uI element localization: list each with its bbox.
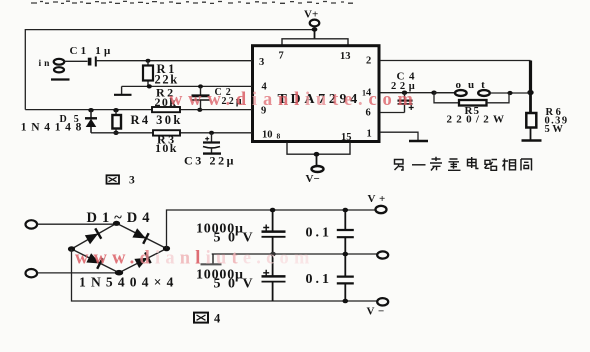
- svg-text:50V: 50V: [214, 277, 261, 292]
- wire pin 6 to C4: [380, 112, 405, 114]
- cut-off text row at top: [31, 1, 353, 3]
- ground (pin 1): [409, 140, 428, 142]
- svg-text:220/2W: 220/2W: [447, 114, 509, 126]
- node C4 top junction: [402, 91, 407, 95]
- svg-text:4: 4: [214, 312, 221, 326]
- resistor R1 22k: [143, 61, 179, 87]
- svg-text:R4 30k: R4 30k: [131, 113, 183, 127]
- capacitor C3 22u: [184, 131, 236, 168]
- svg-text:in: in: [39, 59, 53, 69]
- resistor R4 30k: [112, 108, 182, 135]
- capacitor C1 1u: [70, 45, 114, 67]
- svg-text:0.1: 0.1: [306, 226, 333, 241]
- svg-text:50V: 50V: [214, 231, 261, 246]
- svg-text:V−: V−: [367, 306, 388, 318]
- svg-text:10: 10: [262, 130, 273, 141]
- V+ terminal (bottom circuit): [368, 193, 389, 213]
- wire V- rail: [72, 249, 377, 301]
- svg-text:C1 1μ: C1 1μ: [70, 45, 114, 57]
- svg-text:3: 3: [259, 57, 264, 68]
- svg-text:15: 15: [341, 132, 352, 143]
- resistor R2 20k: [152, 86, 180, 113]
- capacitor 0.1 (top): [306, 208, 354, 257]
- svg-text:22k: 22k: [155, 73, 179, 87]
- svg-text:D1~D4: D1~D4: [87, 210, 155, 226]
- capacitor 10000u/50V (bottom): [196, 252, 286, 301]
- resistor R5 220/2W: [434, 93, 509, 126]
- diode D3 (bottom-left): [86, 252, 103, 268]
- svg-text:1N4148: 1N4148: [21, 122, 86, 134]
- svg-text:10k: 10k: [155, 141, 178, 155]
- op-amp U1 TDA7294 IC box: [253, 46, 380, 142]
- wire pin 14 output line: [380, 92, 455, 94]
- svg-text:8: 8: [277, 132, 281, 141]
- V- terminal (bottom circuit): [367, 298, 389, 317]
- node R1 bottom junction: [147, 84, 152, 88]
- wire V+ rail: [167, 210, 377, 249]
- capacitor 10000u/50V (top): [196, 208, 286, 254]
- wire pin 4 line: [122, 85, 252, 87]
- wire input2 to bridge bottom: [37, 272, 119, 274]
- svg-text:V−: V−: [306, 173, 320, 185]
- resistor R3 10k: [153, 130, 180, 155]
- svg-text:www.dianliute.com: www.dianliute.com: [169, 90, 419, 110]
- 图3 figure label: [107, 175, 136, 187]
- wire pin 1 to ground: [380, 132, 418, 140]
- svg-text:2: 2: [366, 56, 371, 67]
- wire: outer loop left+top border: [25, 30, 314, 110]
- wire C1 to pin 3: [96, 60, 252, 62]
- node 0V terminal: [377, 251, 388, 258]
- svg-text:5W: 5W: [545, 124, 566, 135]
- ground (mid rail): [212, 254, 214, 264]
- diode D1 (top-left): [84, 228, 101, 245]
- wire pin 2 feedback line: [380, 60, 531, 62]
- capacitor C2 22u: [192, 84, 244, 112]
- wire in to C1: [65, 60, 88, 62]
- capacitor C4 22u: [391, 71, 419, 113]
- ground (pin 4 line): [121, 86, 123, 94]
- svg-text:V+: V+: [368, 193, 389, 205]
- svg-text:C3 22μ: C3 22μ: [184, 154, 236, 168]
- svg-text:3: 3: [129, 175, 135, 187]
- diode D2 (top-right): [132, 227, 149, 243]
- wire 0V mid rail: [212, 253, 377, 255]
- svg-text:7: 7: [279, 51, 284, 62]
- svg-text:www.dianliute.com: www.dianliute.com: [75, 249, 315, 269]
- resistor R6 0.39 5W: [526, 93, 568, 141]
- svg-text:13: 13: [340, 51, 351, 62]
- diode D4 (bottom-right): [134, 252, 151, 268]
- wire pin 9 rail: [25, 109, 252, 111]
- wire input1 to bridge top: [37, 223, 114, 225]
- node junction R1/pin3 wire: [146, 59, 151, 63]
- 图4 figure label: [194, 312, 221, 326]
- node AC input terminal 1: [26, 220, 38, 228]
- svg-text:1N5404×4: 1N5404×4: [79, 275, 179, 290]
- ground (R6): [522, 139, 542, 142]
- node out terminals: [434, 79, 531, 96]
- wire pin 10 rail: [91, 132, 252, 134]
- ground (in terminal): [51, 78, 70, 80]
- svg-text:1: 1: [367, 129, 372, 140]
- node AC input terminal 2: [26, 269, 38, 277]
- capacitor 0.1 (bottom): [306, 254, 354, 303]
- note text: other channel identical (pseudo CJK): [395, 157, 532, 171]
- V- terminal (bottom of IC): [306, 152, 324, 185]
- node output junction: [527, 90, 533, 95]
- bridge rectifier edges (wires): [72, 223, 167, 272]
- diode D5 1N4148: [21, 108, 97, 134]
- wire: V+ bracket to pins 7,13: [282, 39, 348, 46]
- V+ terminal (top): [304, 9, 319, 39]
- node in terminal: [39, 59, 65, 73]
- node R5 left junction: [431, 91, 436, 95]
- wire IC bottom bracket to V-: [287, 143, 350, 155]
- node bridge corners: [113, 221, 120, 226]
- svg-text:0.1: 0.1: [306, 272, 333, 287]
